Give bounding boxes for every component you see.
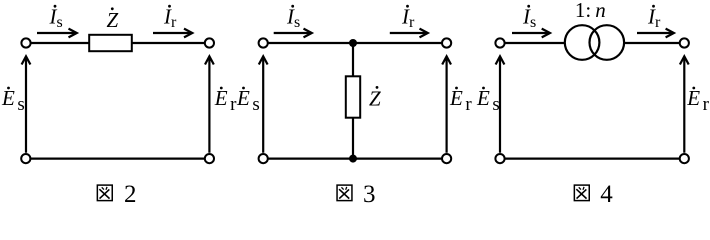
wire top-left (fig4) — [505, 42, 565, 44]
label Er (fig4) — [686, 86, 709, 115]
label Ir (fig3) — [401, 4, 415, 31]
label Ir (fig2) — [163, 4, 177, 31]
current arrow Is (fig3) — [274, 29, 312, 38]
label Z value (fig2) — [107, 7, 119, 32]
transformer T secondary coil (fig4) — [590, 25, 625, 60]
label Is (fig2) — [49, 4, 63, 31]
caption fig 3 kanji ZU — [337, 185, 352, 201]
label Es (fig2) — [1, 86, 25, 115]
svg-text:Is: Is — [49, 4, 63, 31]
terminal (bottom-left, fig4) — [495, 154, 504, 163]
label Er (fig2) — [214, 86, 237, 115]
wire bottom (fig3) — [268, 158, 441, 160]
current arrow Ir (fig3) — [390, 29, 428, 38]
wire shunt lower (fig3) — [352, 118, 354, 157]
label Es (fig4) — [476, 86, 500, 115]
terminal (bottom-left, fig2) — [21, 154, 30, 163]
terminal (top-right, fig4) — [680, 38, 689, 47]
terminal (bottom-left, fig3) — [259, 154, 268, 163]
voltage arrow Er (fig4) — [680, 56, 689, 153]
label Ir (fig4) — [647, 4, 661, 31]
junction node bottom (fig3) — [349, 155, 357, 163]
label Is (fig4) — [522, 4, 536, 31]
transformer T primary coil (fig4) — [565, 25, 600, 60]
current arrow Is (fig4) — [512, 29, 550, 38]
label Er (fig3) — [449, 86, 472, 115]
current arrow Ir (fig2) — [153, 29, 192, 38]
terminal (bottom-right, fig3) — [442, 154, 451, 163]
svg-text:Is: Is — [522, 4, 536, 31]
label Is (fig3) — [286, 4, 300, 31]
svg-text:3: 3 — [363, 181, 376, 207]
current arrow Is (fig2) — [37, 29, 77, 38]
svg-text:Is: Is — [286, 4, 300, 31]
caption fig 4 kanji ZU — [574, 185, 589, 201]
wire top-right (fig2) — [132, 42, 205, 44]
wire top-right (fig4) — [624, 42, 679, 44]
label Z value (fig3) — [369, 86, 381, 111]
terminal (top-left, fig4) — [495, 38, 504, 47]
svg-text:Es: Es — [476, 86, 500, 115]
terminal (bottom-right, fig2) — [205, 154, 214, 163]
current arrow Ir (fig4) — [637, 29, 674, 38]
svg-text:Er: Er — [686, 86, 709, 115]
svg-text:Ir: Ir — [647, 4, 661, 31]
svg-text:Es: Es — [1, 86, 25, 115]
wire top (fig3) — [268, 42, 441, 44]
terminal (top-left, fig3) — [259, 38, 268, 47]
caption fig 2 kanji ZU — [97, 185, 112, 201]
svg-text:Ir: Ir — [163, 4, 177, 31]
wire top-left (fig2) — [31, 42, 89, 44]
svg-text:Ir: Ir — [401, 4, 415, 31]
svg-text:Es: Es — [236, 86, 260, 115]
impedance Z shunt box (fig3) — [346, 76, 360, 117]
svg-text:Er: Er — [449, 86, 472, 115]
junction node top (fig3) — [349, 39, 357, 47]
svg-text:2: 2 — [124, 181, 137, 207]
terminal (bottom-right, fig4) — [680, 154, 689, 163]
terminal (top-left, fig2) — [21, 38, 30, 47]
svg-text:1:n: 1:n — [575, 0, 606, 22]
svg-text:Z: Z — [107, 8, 119, 32]
wire bottom (fig4) — [505, 158, 679, 160]
voltage arrow Es (fig2) — [22, 56, 31, 153]
label Es (fig3) — [236, 86, 260, 115]
svg-text:Er: Er — [214, 86, 237, 115]
wire bottom (fig2) — [31, 158, 205, 160]
svg-text:4: 4 — [600, 181, 613, 207]
voltage arrow Es (fig3) — [259, 56, 268, 153]
voltage arrow Er (fig3) — [442, 56, 451, 153]
voltage arrow Es (fig4) — [496, 56, 505, 153]
wire shunt upper (fig3) — [352, 45, 354, 76]
resistor Z (fig2) — [89, 35, 132, 51]
terminal (top-right, fig2) — [205, 38, 214, 47]
svg-text:Z: Z — [369, 87, 381, 111]
voltage arrow Er (fig2) — [205, 56, 214, 153]
terminal (top-right, fig3) — [442, 38, 451, 47]
